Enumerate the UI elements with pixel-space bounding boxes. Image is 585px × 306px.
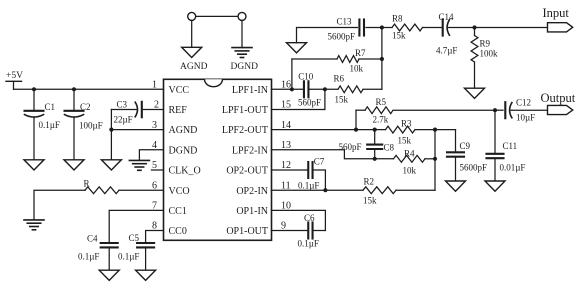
- svg-text:5: 5: [152, 160, 157, 171]
- resistor R8: [382, 14, 442, 41]
- svg-text:C11: C11: [503, 141, 518, 151]
- svg-text:CC0: CC0: [169, 226, 187, 237]
- earth ground DGND pin: [129, 160, 149, 170]
- capacitor C3: [111, 100, 163, 125]
- svg-text:4: 4: [152, 140, 157, 151]
- capacitor C7: [298, 157, 325, 191]
- wire R5 riser: [355, 110, 357, 129]
- svg-text:10k: 10k: [403, 166, 417, 176]
- wire pin 15: [272, 89, 325, 109]
- node junction C10/R6: [323, 87, 327, 91]
- wire pin 4 DGND: [139, 150, 163, 161]
- node junction R3 right: [433, 128, 437, 132]
- svg-text:C14: C14: [439, 12, 455, 22]
- svg-text:3: 3: [152, 120, 157, 131]
- ground C9: [446, 181, 466, 191]
- connector Output: [541, 91, 576, 115]
- svg-text:6: 6: [152, 180, 157, 191]
- svg-text:R9: R9: [480, 39, 491, 49]
- capacitor C4: [78, 234, 118, 271]
- wire pin 11 row: [272, 189, 364, 191]
- capacitor C13: [328, 17, 365, 42]
- wire pin 6 right: [119, 189, 164, 191]
- svg-text:LPF1-IN: LPF1-IN: [232, 85, 268, 96]
- svg-text:R3: R3: [401, 119, 412, 129]
- capacitor C8: [339, 130, 395, 159]
- svg-text:22µF: 22µF: [114, 115, 133, 125]
- wire AGND terminal down: [191, 20, 193, 47]
- resistor R5: [356, 97, 495, 125]
- svg-text:10k: 10k: [350, 64, 364, 74]
- svg-text:VCO: VCO: [169, 186, 190, 197]
- svg-text:R7: R7: [355, 48, 366, 58]
- capacitor C1: [25, 89, 60, 160]
- svg-text:C13: C13: [337, 17, 353, 27]
- svg-text:560pF: 560pF: [298, 98, 321, 108]
- svg-text:AGND: AGND: [169, 125, 198, 136]
- ground C1: [24, 160, 44, 170]
- resistor R6: [334, 74, 382, 105]
- wire C13 ground branch: [297, 28, 358, 43]
- svg-text:C8: C8: [384, 143, 395, 153]
- capacitor C2: [65, 89, 103, 160]
- svg-text:R5: R5: [376, 97, 387, 107]
- svg-text:LPF1-OUT: LPF1-OUT: [222, 105, 268, 116]
- svg-text:0.01µF: 0.01µF: [500, 163, 526, 173]
- svg-text:Output: Output: [541, 91, 576, 105]
- wire pin 10 jog: [272, 210, 326, 230]
- resistor R7: [292, 48, 382, 74]
- svg-text:100k: 100k: [480, 49, 499, 59]
- wire pin 16 to C10: [272, 88, 304, 90]
- node junction R7 right: [380, 57, 384, 61]
- wire pin 7 to C4: [109, 210, 163, 243]
- resistor R9: [471, 28, 498, 89]
- svg-text:LPF2-OUT: LPF2-OUT: [222, 125, 268, 136]
- wire pin 9 to C6: [272, 230, 309, 232]
- svg-text:C9: C9: [460, 141, 471, 151]
- capacitor C14: [436, 12, 457, 56]
- earth ground DGND symbol: [231, 48, 259, 72]
- node junction R5/C12/C11: [493, 108, 497, 112]
- svg-text:0.1µF: 0.1µF: [118, 252, 139, 262]
- svg-text:5600pF: 5600pF: [328, 32, 356, 42]
- resistor R3: [386, 119, 436, 146]
- node junction C1 on rail: [32, 87, 36, 91]
- op-amp U1 filter IC body: [164, 79, 272, 240]
- svg-text:VCC: VCC: [169, 85, 190, 96]
- terminal DGND: [238, 12, 246, 20]
- node junction C7/pin11: [323, 188, 327, 192]
- svg-text:C12: C12: [516, 98, 531, 108]
- svg-text:C7: C7: [314, 157, 325, 167]
- svg-text:R4: R4: [404, 149, 415, 159]
- svg-text:OP2-IN: OP2-IN: [236, 186, 268, 197]
- wire C7 to pin 11 row: [313, 170, 326, 190]
- wire DGND terminal down: [241, 20, 243, 47]
- wire pin 3 AGND: [111, 129, 163, 131]
- node junction C2 on rail: [72, 87, 76, 91]
- node junction C13/R8: [380, 25, 384, 29]
- svg-text:R8: R8: [392, 14, 403, 24]
- svg-text:C3: C3: [117, 100, 128, 110]
- U1 pin name labels: [169, 85, 269, 237]
- svg-text:+5V: +5V: [6, 71, 23, 81]
- wire pin 12 to C7: [272, 169, 309, 171]
- wire R to ground: [34, 190, 85, 220]
- wire pin 14 row: [272, 129, 386, 131]
- wire pin 5 stub: [152, 169, 164, 171]
- svg-text:10µF: 10µF: [516, 113, 535, 123]
- ground AGND net: [101, 160, 121, 170]
- node junction C8 bottom: [373, 157, 377, 161]
- svg-text:1: 1: [152, 80, 157, 91]
- svg-text:CLK_O: CLK_O: [169, 166, 201, 177]
- wire C13 to junction: [366, 27, 382, 29]
- node junction C3/AGND: [109, 128, 113, 132]
- svg-text:DGND: DGND: [169, 145, 198, 156]
- svg-text:2: 2: [154, 100, 159, 111]
- svg-text:0.1µF: 0.1µF: [298, 181, 319, 191]
- svg-text:5600pF: 5600pF: [460, 163, 488, 173]
- svg-text:0.1µF: 0.1µF: [39, 120, 60, 130]
- svg-text:8: 8: [152, 221, 157, 232]
- svg-text:OP2-OUT: OP2-OUT: [226, 166, 268, 177]
- terminal AGND: [188, 12, 196, 20]
- svg-text:OP1-IN: OP1-IN: [236, 206, 268, 217]
- svg-text:15k: 15k: [398, 136, 412, 146]
- svg-text:C2: C2: [80, 102, 91, 112]
- wire pin 8 to C5: [146, 231, 164, 244]
- svg-text:0.1µF: 0.1µF: [78, 252, 99, 262]
- svg-text:R2: R2: [364, 177, 375, 187]
- svg-text:15k: 15k: [392, 31, 406, 41]
- svg-text:C5: C5: [129, 233, 140, 243]
- resistor R2: [363, 177, 435, 206]
- node junction C14/R9: [472, 25, 476, 29]
- ground AGND symbol: [180, 47, 208, 72]
- capacitor C11: [487, 110, 526, 181]
- capacitor C10: [298, 72, 321, 108]
- svg-text:LPF2-IN: LPF2-IN: [232, 145, 268, 156]
- svg-text:C10: C10: [298, 72, 314, 82]
- capacitor C12: [495, 98, 548, 123]
- node junction C8 top: [373, 128, 377, 132]
- wire C3 to ground: [110, 110, 112, 160]
- svg-text:560pF: 560pF: [339, 142, 362, 152]
- wire C14 to Input: [448, 27, 547, 29]
- svg-text:100µF: 100µF: [79, 121, 103, 131]
- wire R7 left down to pin 16: [291, 59, 293, 89]
- node junction R5 tap: [354, 128, 358, 132]
- svg-text:REF: REF: [169, 105, 188, 116]
- svg-text:C6: C6: [304, 213, 315, 223]
- svg-text:15k: 15k: [363, 196, 377, 206]
- svg-text:0.1µF: 0.1µF: [298, 239, 319, 249]
- svg-text:AGND: AGND: [180, 62, 208, 72]
- power terminal +5V: [6, 71, 23, 89]
- node junction R4 right: [433, 157, 437, 161]
- capacitor C6: [298, 213, 319, 249]
- svg-text:CC1: CC1: [169, 206, 187, 217]
- svg-text:R: R: [84, 179, 90, 189]
- svg-text:C1: C1: [45, 102, 56, 112]
- svg-text:DGND: DGND: [231, 62, 259, 72]
- wire +5V rail to pin 1: [14, 88, 164, 90]
- capacitor C9: [447, 130, 487, 181]
- wire jog to C9: [435, 129, 456, 131]
- ground C5: [136, 270, 156, 280]
- svg-text:2.7k: 2.7k: [373, 115, 389, 125]
- earth ground R: [24, 220, 44, 230]
- wire C10 to R6: [309, 88, 338, 90]
- svg-text:15k: 15k: [335, 95, 349, 105]
- svg-text:Input: Input: [543, 6, 570, 20]
- U1 pin number labels: [152, 80, 291, 232]
- ground C4: [99, 270, 119, 280]
- wire vertical R3-R4-R2: [434, 130, 436, 191]
- svg-text:OP1-OUT: OP1-OUT: [226, 226, 268, 237]
- svg-text:R6: R6: [334, 74, 345, 84]
- node junction pin16: [290, 87, 294, 91]
- wire vertical C13-R7-R6: [381, 28, 383, 90]
- resistor R4: [394, 149, 436, 176]
- wire C6 right: [313, 230, 326, 232]
- connector Input: [543, 6, 573, 32]
- ground C13 branch: [287, 43, 307, 53]
- resistor R: [84, 179, 120, 194]
- capacitor C5: [118, 233, 154, 270]
- svg-text:4.7µF: 4.7µF: [436, 46, 457, 56]
- ground C2: [64, 160, 84, 170]
- wire pin 13 jog: [272, 150, 394, 159]
- ground C11: [485, 181, 505, 191]
- svg-text:7: 7: [152, 201, 157, 212]
- ground R9: [465, 88, 485, 98]
- wire terminal to terminal: [196, 15, 238, 17]
- svg-text:C4: C4: [87, 234, 98, 244]
